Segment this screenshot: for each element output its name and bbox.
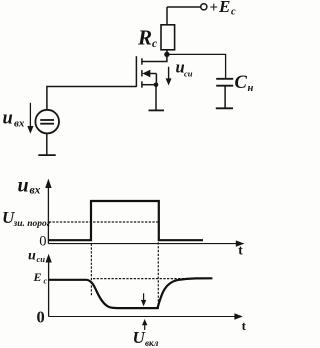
source uвх (circle with bars)	[35, 110, 59, 134]
wire: capacitor bottom to ground	[224, 86, 226, 108]
svg-text:вх: вх	[30, 185, 41, 197]
svg-text:u: u	[28, 249, 36, 264]
svg-text:+: +	[210, 0, 219, 16]
ground (source)	[149, 109, 165, 111]
svg-text:вкл: вкл	[145, 338, 159, 348]
arrow down (U_вкл marker above curve)	[141, 293, 146, 306]
body stub	[146, 73, 156, 75]
label u_си (plot 2 axis)	[28, 249, 45, 265]
svg-text:0: 0	[37, 308, 45, 327]
wire: +Ec feed horizontal	[167, 6, 200, 8]
curve: input pulse u_вх	[49, 201, 203, 240]
resistor Rc body	[161, 25, 175, 50]
label ucu	[176, 58, 193, 79]
svg-text:u: u	[18, 175, 29, 197]
arrow uвх	[27, 103, 33, 134]
label Rc	[137, 25, 157, 50]
capacitor Cн plates	[216, 79, 233, 86]
MOSFET body arrow (points to gate)	[142, 70, 150, 77]
node: source junction dot	[154, 83, 159, 88]
svg-text:U: U	[133, 328, 146, 347]
dashed vertical at pulse end	[157, 242, 159, 309]
svg-text:E: E	[218, 0, 230, 16]
label +Ec	[210, 0, 237, 18]
arrow up (U_вкл marker below axis)	[142, 319, 147, 330]
svg-text:C: C	[235, 73, 248, 93]
svg-text:си: си	[37, 254, 46, 264]
svg-text:R: R	[137, 25, 152, 49]
wire: source down to ground	[155, 85, 157, 110]
dashed vertical at pulse start	[90, 244, 92, 297]
svg-text:c: c	[152, 38, 157, 50]
axis: horizontal t (plot 2)	[49, 313, 243, 319]
svg-text:c: c	[44, 277, 48, 286]
ground (capacitor)	[216, 107, 233, 109]
transistor VT (n-channel MOSFET)	[136, 56, 156, 87]
axis: horizontal t (plot 1)	[48, 240, 244, 246]
wire: +Ec down to resistor top	[166, 7, 168, 25]
wire: input to gate	[47, 87, 136, 110]
source stub	[142, 84, 156, 86]
terminal +Ec (circle)	[201, 4, 207, 10]
svg-text:t: t	[242, 318, 247, 333]
svg-text:си: си	[184, 69, 193, 79]
wire: drain node to capacitor (horizontal) then down	[167, 54, 226, 78]
label U_зи.порог	[2, 208, 51, 229]
label Ec	[33, 270, 48, 286]
svg-text:н: н	[248, 83, 254, 94]
channel segment (drain)	[141, 58, 143, 64]
curve: u_си discharge/recharge	[49, 278, 212, 308]
label Cн	[235, 73, 254, 94]
axis: vertical (plot 2)	[46, 254, 52, 317]
svg-text:вх: вх	[14, 118, 25, 130]
wire: resistor bottom to drain node	[166, 50, 168, 55]
arrow ucu (drain-source voltage)	[166, 67, 172, 86]
axis: vertical (plot 1)	[45, 179, 51, 244]
channel segment (source)	[141, 81, 143, 87]
svg-text:t: t	[238, 242, 243, 257]
label U_вкл	[133, 328, 159, 348]
svg-text:c: c	[231, 7, 236, 18]
node: drain junction dot	[164, 52, 169, 57]
label u_вх (plot 1 axis)	[18, 175, 41, 197]
wire: drain node down and left to MOSFET drain	[142, 54, 167, 61]
label uвх (input)	[3, 109, 25, 130]
channel segment (body)	[141, 70, 143, 76]
svg-text:0: 0	[39, 234, 46, 250]
gate line	[135, 56, 137, 87]
threshold dashed line U зи.порог	[49, 221, 159, 223]
svg-text:u: u	[3, 109, 13, 129]
dashed Ec asymptote	[93, 278, 196, 280]
svg-text:E: E	[33, 270, 42, 284]
wire: source bottom to ground	[46, 133, 48, 154]
body-source tie	[155, 74, 157, 85]
ground (input source)	[38, 154, 55, 156]
svg-text:зи. порог: зи. порог	[13, 219, 51, 229]
